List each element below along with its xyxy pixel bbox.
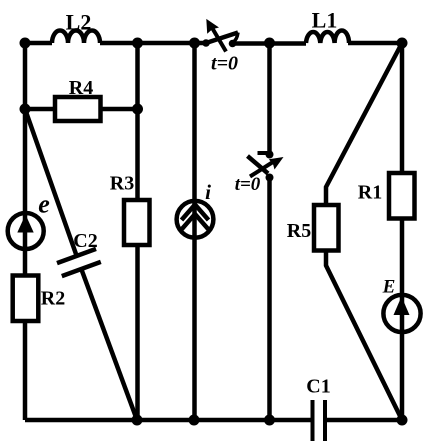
svg-text:R1: R1	[358, 182, 382, 204]
voltage source E	[383, 295, 420, 332]
wire switch rail upper	[267, 43, 272, 153]
inductor L2	[52, 30, 100, 43]
node dot bottom switch-rail	[264, 415, 275, 426]
wire bottom rail left	[25, 418, 312, 423]
svg-text:e: e	[38, 190, 50, 219]
wire R3 rail lower	[135, 244, 140, 420]
svg-text:L1: L1	[312, 8, 338, 33]
switch SW1 t=0 (top)	[202, 19, 238, 52]
node dot L1 right	[397, 38, 408, 49]
current source i	[177, 201, 214, 238]
wire left rail lower	[23, 320, 28, 420]
wire i rail	[192, 43, 197, 420]
switch SW2 t=0 (middle)	[248, 151, 284, 182]
svg-text:C1: C1	[306, 376, 330, 398]
svg-text:L2: L2	[66, 10, 92, 35]
wire top rail L2 to switch	[100, 41, 203, 46]
resistor R1	[389, 173, 415, 219]
resistor R3	[124, 200, 150, 245]
wire switch rail lower	[267, 178, 272, 421]
svg-text:R4: R4	[69, 77, 93, 99]
wire diagonal R5 to bottom right node	[326, 250, 402, 420]
wire C2 upper diagonal	[25, 109, 77, 256]
node dot L2 right	[132, 38, 143, 49]
resistor R4	[55, 97, 101, 121]
wire top rail switch to L1	[233, 41, 307, 46]
wire top rail left	[25, 41, 52, 46]
svg-text:C2: C2	[73, 230, 97, 252]
node dot bottom i-rail	[189, 415, 200, 426]
wire R3 rail upper	[135, 43, 140, 201]
svg-text:t=0: t=0	[235, 174, 261, 195]
node dot i-rail top	[189, 38, 200, 49]
capacitor C2	[57, 249, 101, 276]
wire C2 lower diagonal	[81, 269, 137, 420]
node dot bottom right	[397, 415, 408, 426]
resistor R2	[13, 276, 39, 322]
svg-text:i: i	[205, 180, 211, 204]
wire right rail lower	[400, 218, 405, 420]
node dot R4 left	[20, 104, 31, 115]
svg-text:t=0: t=0	[211, 53, 238, 75]
wire top rail right	[348, 41, 402, 46]
node dot bottom R3	[132, 415, 143, 426]
wire diagonal L1 node to R5	[326, 43, 402, 206]
resistor R5	[314, 205, 339, 251]
node dot R4 right	[132, 104, 143, 115]
wire R4 left lead	[25, 107, 55, 112]
svg-text:R3: R3	[110, 173, 134, 195]
wire bottom rail right	[326, 418, 403, 423]
svg-text:E: E	[382, 277, 396, 298]
wire left rail upper	[23, 43, 28, 276]
svg-text:R5: R5	[287, 220, 311, 242]
wire right rail upper	[400, 43, 405, 174]
inductor L1	[306, 30, 349, 43]
capacitor C1	[313, 400, 326, 441]
wire R4 right lead	[100, 107, 138, 112]
voltage source e	[8, 213, 44, 249]
svg-text:R2: R2	[41, 288, 65, 310]
node dot switch-rail top	[264, 38, 275, 49]
node dot top-left	[20, 38, 31, 49]
